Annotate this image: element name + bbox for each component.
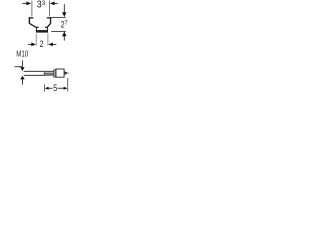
dimension 3.3 left arrowhead (26, 2, 31, 6)
dimension 3.3 right arrowhead (50, 2, 55, 6)
dimension 3.3 right extension line (48, 1, 50, 17)
rod head block (56, 69, 64, 77)
dimension 2 left extension line (35, 33, 37, 45)
dimension 2.7 top arrow shaft (63, 4, 65, 12)
dimension 2.7 bottom arrowhead (62, 32, 66, 37)
dimension 2.7 bottom extension line (51, 30, 66, 32)
dimension 5 right shaft (58, 87, 64, 89)
svg-text:5: 5 (53, 82, 57, 93)
dimension 2 left arrow shaft (28, 43, 32, 45)
dimension 2 right extension line (47, 33, 49, 45)
M10 bottom arrowhead (20, 76, 25, 80)
dimension 3.3 left arrow shaft (22, 2, 27, 4)
dimension 5 right extension line (67, 78, 69, 91)
clip right diagonal (47, 24, 50, 28)
rod collar (54, 70, 56, 77)
svg-text:M10: M10 (16, 49, 28, 59)
dimension 2 right arrowhead (48, 43, 53, 47)
dimension 3.3 right arrow shaft (54, 2, 57, 4)
rod threaded section (44, 72, 54, 76)
M10 leader horizontal bar (15, 66, 23, 68)
dimension 2.7 top extension line (51, 16, 66, 18)
dimension 2 left arrowhead (31, 43, 36, 47)
svg-text:7: 7 (65, 20, 69, 26)
rod thread light stripe (44, 71, 53, 74)
M10 bottom arrow shaft (21, 79, 23, 84)
clip box top-right edge (45, 26, 48, 28)
M10 top arrowhead (20, 67, 24, 71)
svg-text:3: 3 (42, 0, 46, 7)
dimension 5 left shaft (48, 87, 52, 89)
svg-text:2: 2 (40, 39, 44, 49)
clip right top flange (47, 17, 52, 18)
dimension 5 right arrowhead (64, 87, 68, 90)
clip left top flange (29, 17, 34, 18)
dimension 2.7 bottom arrow shaft (63, 36, 65, 41)
rod tip frustum (65, 71, 68, 75)
clip box right edge (46, 27, 48, 31)
dimension 5 left extension line (43, 84, 45, 91)
M10 leader vertical shaft (21, 60, 23, 66)
dimension 2.7 top arrowhead (62, 12, 66, 17)
rod tip nib (67, 72, 69, 73)
clip box left edge (35, 27, 37, 31)
clip box bottom bar (36, 30, 48, 32)
dimension 2 right arrow shaft (53, 43, 57, 45)
rod bottom edge (24, 74, 54, 76)
clip right wall (50, 18, 51, 23)
clip left wall (29, 18, 30, 23)
rod top edge (24, 70, 54, 72)
rod thread start edge (44, 71, 45, 76)
rod thread dark stripe (44, 72, 53, 75)
clip left diagonal (30, 24, 37, 28)
clip box top-left edge (36, 26, 39, 28)
dimension 5 left arrowhead (45, 87, 49, 90)
dimension 3.3 left extension line (31, 1, 33, 17)
